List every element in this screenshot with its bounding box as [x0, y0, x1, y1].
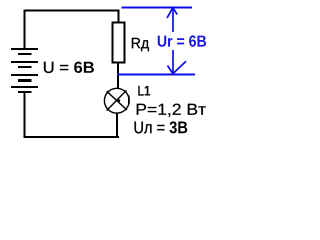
- resistor Rd body: [113, 23, 125, 63]
- battery GB1 plate short 1: [18, 53, 32, 55]
- label L1 (lamp designator): [138, 86, 150, 96]
- battery GB1 plate short 3 (thick): [18, 79, 32, 82]
- battery GB1 plate long 3: [11, 74, 38, 76]
- lamp L1 cross stroke 1: [107, 91, 127, 110]
- battery GB1 plate short 2: [18, 66, 32, 68]
- label P=1,2 W (lamp power): [137, 104, 206, 117]
- lamp L1 circle: [104, 88, 129, 113]
- wire top rail: [24, 10, 120, 12]
- annotation reference line mid (blue): [117, 74, 195, 76]
- wire left vertical top (battery to top rail): [24, 10, 26, 50]
- annotation arrow down shaft: [172, 50, 174, 73]
- wire right vertical (top rail to resistor): [117, 10, 119, 24]
- label Rd (resistor designator): [132, 38, 149, 51]
- lamp L1 cross stroke 2: [107, 90, 127, 110]
- wire left vertical bottom (battery to bottom rail): [24, 92, 26, 138]
- label U = 6V (battery voltage): [44, 62, 94, 73]
- annotation arrow up head: [167, 8, 177, 18]
- lamp L1 right rim retrace mark: [128, 96, 130, 105]
- wire bottom rail: [24, 136, 120, 138]
- label Ul = 3V (lamp voltage): [135, 121, 188, 133]
- battery GB1 plate short 4: [18, 91, 32, 93]
- annotation arrow up shaft: [172, 8, 174, 32]
- lamp L1 cross center blob: [117, 99, 120, 102]
- battery GB1 plate long 2: [11, 61, 38, 63]
- battery GB1 plate long 1: [11, 48, 38, 50]
- label Ur = 6V (blue, voltage across dropper resistor): [158, 35, 206, 46]
- wire resistor to lamp: [117, 63, 119, 89]
- annotation reference line top (blue): [122, 7, 193, 9]
- annotation arrow down head: [168, 61, 187, 73]
- battery GB1 plate long 4: [11, 86, 38, 88]
- wire lamp to bottom rail: [116, 114, 118, 139]
